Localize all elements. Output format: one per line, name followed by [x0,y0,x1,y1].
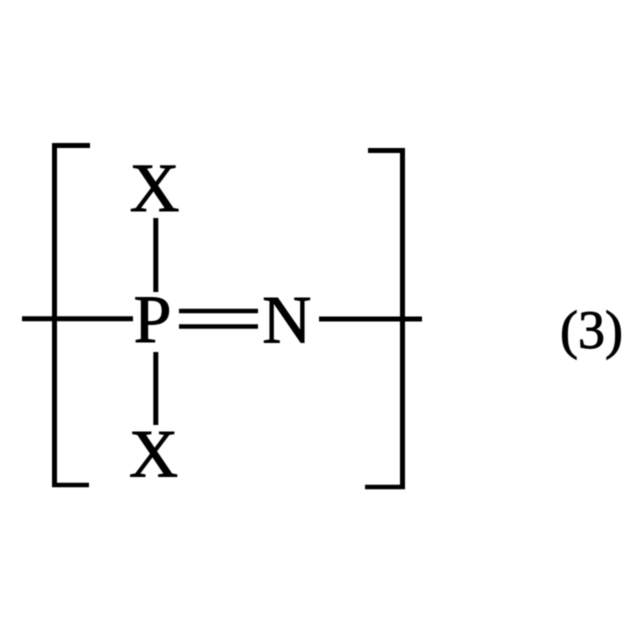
svg-text:X: X [130,150,180,226]
svg-text:X: X [129,416,178,492]
svg-text:N: N [262,282,311,358]
svg-text:(3): (3) [560,300,623,360]
svg-text:P: P [134,281,172,357]
